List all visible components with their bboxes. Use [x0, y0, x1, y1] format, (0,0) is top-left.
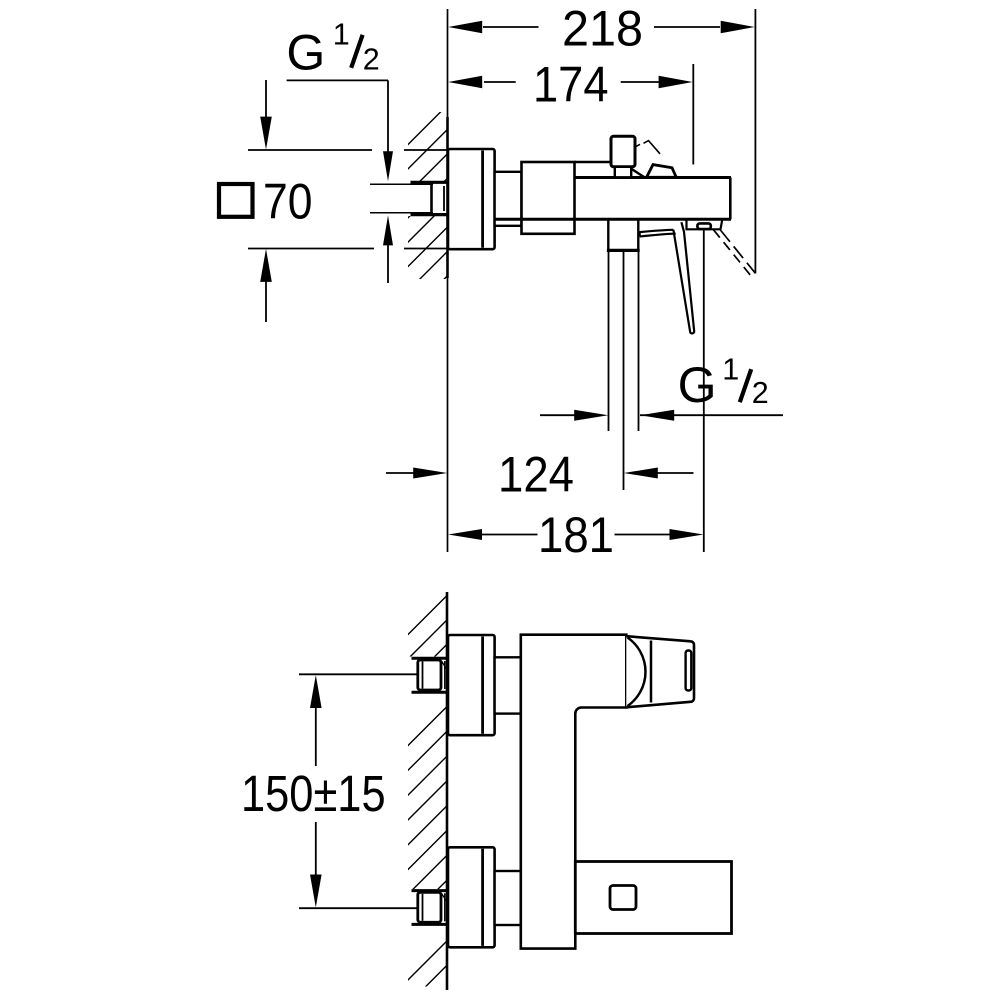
svg-text:2: 2 [752, 376, 769, 410]
lever wedge on top of spout (side view) [647, 165, 677, 178]
dimension 70 arrows [260, 80, 272, 322]
water stream dashed lines (side view) [714, 230, 756, 277]
dimension 150 +/- 15 arrows [310, 675, 322, 908]
dimension 218 [448, 1, 755, 57]
svg-text:G: G [286, 25, 325, 81]
svg-text:174: 174 [533, 57, 609, 113]
extension line right of 218 [754, 9, 756, 274]
dimension 181 [448, 507, 704, 563]
spout bottom edge (side view) [495, 218, 731, 221]
lower flange ring line (front view) [481, 849, 484, 946]
upper connector (front view) [495, 657, 522, 713]
lever grip and blade (side view) [640, 222, 695, 333]
lower connector (front view) [495, 871, 522, 925]
svg-text:218: 218 [562, 1, 643, 57]
extension line right of 174 [692, 64, 694, 165]
svg-text:124: 124 [498, 447, 574, 503]
upper supply union nut (front view) [418, 660, 447, 690]
upper escutcheon flange (front view) [448, 635, 495, 735]
pipe thread lower arrow (side view) [383, 215, 393, 283]
spout front edge (side view) [729, 178, 732, 220]
diverter knob (side view) [611, 136, 635, 167]
upper flange ring line (front view) [481, 637, 484, 734]
valve body (side view) [522, 162, 575, 234]
aerator housing under spout end (side view) [687, 219, 723, 229]
svg-text:150±15: 150±15 [241, 765, 386, 822]
lower escutcheon flange (front view) [448, 847, 495, 947]
dimension square 70 extension lines [248, 150, 447, 249]
spout face square hole (front view) [610, 886, 636, 910]
connector between flange and body (side view) [495, 172, 522, 226]
svg-text:1: 1 [722, 353, 739, 387]
svg-text:70: 70 [263, 173, 313, 229]
svg-text:181: 181 [538, 507, 614, 563]
wall hatching (front view) [407, 594, 449, 1005]
shower hose break symbol zigzag (side view) [635, 141, 661, 154]
lower supply union nut (front view) [418, 892, 447, 922]
svg-text:1: 1 [333, 17, 350, 51]
wall section line with extension line (side view) [447, 9, 449, 552]
wall section line (front view) [446, 592, 449, 990]
upper supply pipe stubs (front view) [412, 658, 448, 692]
faucet body (front view) [521, 635, 627, 949]
label G 1/2 top with leader [286, 17, 393, 181]
dimension 124 [386, 447, 694, 503]
wall hatching (side view) [407, 104, 449, 316]
dimension 174 [448, 57, 692, 113]
aerator outlet slot (side view) [697, 223, 710, 229]
wall escutcheon flange 70x70 (side view) [448, 149, 495, 249]
dimension 150 +/- 15 extension lines [299, 674, 418, 908]
rear housing top edge (side view) [575, 161, 612, 164]
outlet thread left arrow [540, 410, 608, 421]
knob stem (side view) [615, 167, 631, 178]
housing chamfer line at stem (side view) [632, 169, 645, 177]
svg-text:2: 2 [363, 43, 380, 77]
lever handle end-on (front view) [626, 636, 694, 707]
square symbol for 70 [219, 184, 253, 217]
lower supply pipe stubs (front view) [412, 891, 448, 925]
svg-text:G: G [678, 357, 717, 413]
outlet thread extension lines [609, 252, 639, 490]
shower outlet drop G1/2 (side view) [607, 219, 640, 250]
flange cover ring line (side view) [481, 151, 484, 248]
spout top edge (side view) [575, 176, 732, 179]
supply pipe G1/2 (side view) [370, 182, 447, 214]
label G 1/2 at shower outlet with leader [640, 353, 783, 421]
bath spout (front view) [575, 862, 731, 934]
extension line right of 181 [703, 230, 705, 552]
